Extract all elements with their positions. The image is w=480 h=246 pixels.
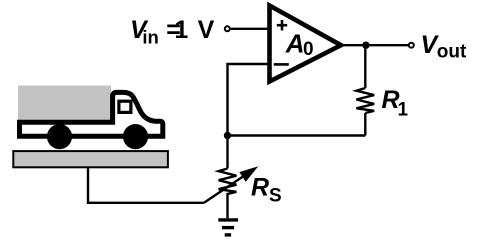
svg-text:0: 0 — [303, 39, 314, 60]
svg-text:out: out — [437, 42, 467, 63]
wire feedback — [228, 134, 366, 136]
resistor RS (variable) — [219, 136, 237, 219]
ground — [218, 220, 238, 235]
op-amp A0 — [270, 6, 342, 82]
truck front wheel — [123, 124, 148, 149]
svg-text:V: V — [198, 16, 215, 44]
truck body outline — [20, 92, 163, 136]
resistor R1 — [356, 45, 374, 135]
node feedback junction — [224, 132, 231, 139]
truck window — [119, 101, 131, 112]
label Vout — [421, 31, 468, 63]
terminal Vin — [225, 26, 230, 31]
svg-text:A: A — [285, 29, 305, 59]
label RS — [251, 174, 282, 207]
label Vin =1 V — [130, 16, 215, 47]
svg-text:S: S — [269, 186, 282, 207]
wire Vin to op-amp + input — [231, 28, 272, 30]
terminal Vout — [409, 43, 414, 48]
label R1 — [382, 86, 409, 121]
node output junction — [362, 42, 369, 49]
scale platform — [13, 151, 168, 167]
svg-text:R: R — [251, 174, 269, 202]
truck rear wheel — [47, 124, 72, 149]
wire op-amp output — [340, 44, 409, 46]
arrow of variable resistor RS — [204, 166, 258, 203]
wire from platform to sensor — [88, 167, 204, 203]
svg-text:1: 1 — [398, 99, 409, 120]
svg-text:1: 1 — [174, 16, 188, 44]
wire op-amp - input — [228, 64, 273, 136]
svg-text:in: in — [142, 26, 158, 47]
truck cargo box — [18, 86, 111, 125]
